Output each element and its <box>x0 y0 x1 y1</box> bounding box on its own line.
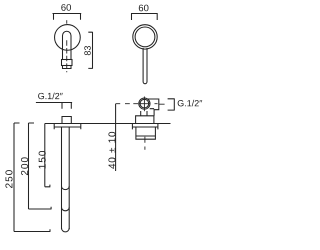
tube bottom cap <box>62 228 70 232</box>
dimension line 60 (spout front view) <box>53 14 82 20</box>
valve mounting foot (side view) <box>136 116 154 124</box>
dimension 83 (right of spout front view) <box>88 32 92 69</box>
escutcheon circle (spout front view) <box>55 25 81 51</box>
dimension label 60 (handle front view) <box>139 5 149 12</box>
handle axis dashed centerline (side view) <box>144 137 146 150</box>
valve body block (side view) <box>148 99 159 116</box>
valve stem (side view) <box>141 111 147 116</box>
aerator band (front view) <box>62 60 73 66</box>
dimension 150 (left) <box>45 124 51 187</box>
handle stem (front view) <box>143 48 147 84</box>
centerline (spout front view) <box>66 20 68 24</box>
ceiling line <box>45 123 171 125</box>
dimension label 60 (spout front view) <box>61 4 71 11</box>
handle ring outer (front view) <box>133 25 157 49</box>
handle escutcheon plate (side view) <box>132 124 158 130</box>
dimension 200 (left) <box>29 123 52 209</box>
spout escutcheon plate (side view) <box>54 124 81 130</box>
tube break arc at 150 <box>62 186 70 189</box>
label 83 <box>84 46 90 55</box>
connection stub above ceiling (side view) <box>62 117 71 124</box>
supply pipe above ceiling (side view) <box>62 103 71 109</box>
dimension 250 (left) <box>14 123 50 232</box>
spout tube (side view) <box>62 128 70 230</box>
valve cartridge inner circle <box>140 99 149 108</box>
G.1/2 bracket (valve side view) <box>168 98 175 110</box>
handle skirt box (side view) <box>136 127 156 139</box>
dimension 40 +/- 10 (valve side view) <box>115 104 117 171</box>
valve centerline (side view) <box>116 103 165 106</box>
label G.1/2 (valve side view) <box>178 100 203 107</box>
tube break arc at 200 <box>62 207 70 210</box>
handle ring inner (front view) <box>135 27 155 47</box>
handle skirt part line <box>136 135 156 137</box>
dimension line 60 (handle front view) <box>131 14 158 21</box>
valve cartridge outer circle (side view) <box>139 98 150 109</box>
spout body (front view) <box>63 31 72 59</box>
label G.1/2 (ceiling supply, side view) <box>38 93 63 100</box>
spout tip (front view) <box>63 66 72 69</box>
valve vertical axis line <box>143 97 145 112</box>
leader underline G.1/2 <box>36 102 72 104</box>
